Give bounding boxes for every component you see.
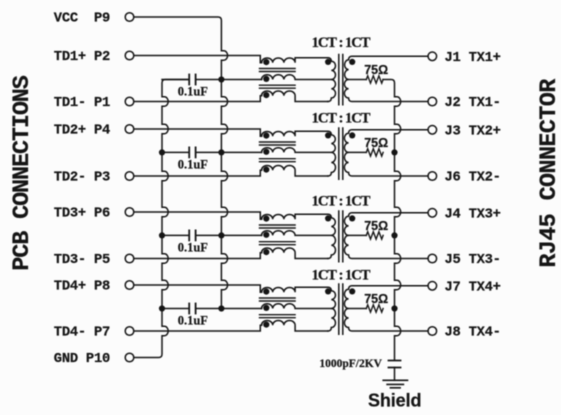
- svg-text:0.1uF: 0.1uF: [178, 158, 209, 172]
- transformer T1 core: [339, 55, 343, 105]
- junction GND bus ch2: [159, 149, 165, 155]
- choke L1 mid winding: [262, 75, 332, 80]
- pin circle J7: [428, 282, 437, 291]
- transformer T2 primary dot: [325, 132, 331, 138]
- svg-text:TD1- P1: TD1- P1: [54, 96, 110, 111]
- choke L4 mid winding: [262, 304, 332, 309]
- transformer T3 secondary: [344, 213, 428, 259]
- svg-text:1CT : 1CT: 1CT : 1CT: [312, 111, 371, 127]
- ground shield symbol: [383, 380, 407, 388]
- transformer T4 core: [339, 284, 343, 334]
- wire T1 center tap: [349, 79, 367, 81]
- choke L3 mid winding: [262, 231, 332, 236]
- pin circle TD4- P7: [125, 327, 134, 336]
- pin circle TD2- P3: [125, 172, 134, 181]
- transformer T2 secondary: [344, 130, 428, 176]
- transformer T4 primary dot: [325, 288, 331, 294]
- wire cap C2 right to choke: [196, 151, 261, 153]
- choke L2 dot top: [263, 133, 269, 139]
- junction VCC bus ch1: [218, 76, 224, 82]
- wire cap C2 left: [162, 151, 188, 153]
- choke L2 core: [260, 142, 296, 162]
- svg-text:1CT : 1CT: 1CT : 1CT: [312, 194, 371, 210]
- svg-text:J1 TX1+: J1 TX1+: [445, 51, 501, 66]
- svg-text:1000pF/2KV: 1000pF/2KV: [319, 358, 382, 370]
- svg-text:VCC P9: VCC P9: [54, 12, 110, 27]
- junction GND bus ch4: [159, 305, 165, 311]
- wire cap C3 right to choke: [196, 234, 261, 236]
- junction VCC bus ch4: [218, 305, 224, 311]
- choke L1 dot mid: [263, 76, 269, 82]
- wire TD1- to choke: [134, 96, 262, 102]
- choke L4 top winding: [262, 287, 328, 292]
- svg-text:RJ45 CONNECTOR: RJ45 CONNECTOR: [536, 78, 561, 268]
- wire T3 center tap: [349, 234, 367, 236]
- svg-text:TD2- P3: TD2- P3: [54, 171, 110, 186]
- wire TD4+ to choke: [134, 285, 262, 292]
- svg-text:75Ω: 75Ω: [364, 292, 388, 306]
- pin circle J5: [428, 254, 437, 263]
- svg-text:J4 TX3+: J4 TX3+: [445, 207, 501, 222]
- transformer T4 secondary: [344, 286, 428, 331]
- transformer T3 secondary dot: [349, 215, 355, 221]
- svg-text:TD2+ P4: TD2+ P4: [54, 124, 110, 139]
- choke L3 bot winding: [262, 248, 328, 259]
- choke L1 dot top: [263, 59, 269, 65]
- svg-text:0.1uF: 0.1uF: [178, 314, 209, 328]
- wire cap C3 left: [162, 234, 188, 236]
- svg-text:TD1+ P2: TD1+ P2: [54, 50, 110, 65]
- pin circle VCC P9: [125, 13, 134, 22]
- pin circle J1: [428, 52, 437, 61]
- transformer T3 primary dot: [325, 215, 331, 221]
- transformer T1 secondary: [344, 56, 428, 101]
- svg-text:TD4+ P8: TD4+ P8: [54, 280, 110, 295]
- transformer T3 primary: [328, 214, 336, 258]
- choke L2 dot mid: [263, 149, 269, 155]
- capacitor C3 0.1uF: [188, 230, 190, 240]
- wire TD3- to choke: [134, 253, 262, 259]
- choke L3 top winding: [262, 214, 328, 219]
- svg-text:J6 TX2-: J6 TX2-: [445, 171, 501, 186]
- choke L4 core: [260, 298, 296, 318]
- wire+bus VCC net: [134, 17, 228, 309]
- choke L2 dot bot: [263, 167, 269, 173]
- transformer T4 primary: [328, 287, 336, 331]
- svg-text:Shield: Shield: [368, 391, 421, 411]
- title RJ45 CONNECTOR: [536, 78, 561, 268]
- transformer T1 primary dot: [325, 59, 331, 65]
- wire TD2+ to choke: [134, 129, 262, 136]
- junction VCC bus ch3: [218, 232, 224, 238]
- wire cap C1 right to choke: [196, 79, 261, 81]
- svg-text:0.1uF: 0.1uF: [178, 85, 209, 99]
- pin circle TD3+ P6: [125, 208, 134, 217]
- choke L3 dot mid: [263, 232, 269, 238]
- pin circle TD2+ P4: [125, 125, 134, 134]
- pin circle J8: [428, 327, 437, 336]
- capacitor C1 0.1uF: [188, 75, 190, 85]
- wire C5 to ground: [394, 368, 396, 381]
- pin circle J4: [428, 209, 437, 218]
- resistor R4 75ohm: [366, 305, 383, 312]
- svg-text:1CT : 1CT: 1CT : 1CT: [312, 268, 371, 284]
- wire TD2- to choke: [134, 170, 262, 176]
- transformer T1 secondary dot: [349, 59, 355, 65]
- resistor R2 75ohm: [366, 149, 383, 156]
- resistor R1 75ohm: [366, 76, 383, 83]
- wire+bus GND net: [134, 80, 189, 358]
- svg-text:J3 TX2+: J3 TX2+: [445, 124, 501, 139]
- svg-text:0.1uF: 0.1uF: [178, 241, 209, 255]
- wire TD1+ to choke: [134, 56, 262, 63]
- transformer T1 primary: [328, 58, 336, 102]
- choke L1 top winding: [262, 58, 328, 63]
- choke L3 core: [260, 225, 296, 245]
- wire cap C4 left: [162, 308, 188, 310]
- choke L1 core: [260, 69, 296, 89]
- title PCB CONNECTIONS: [9, 75, 36, 270]
- choke L2 mid winding: [262, 148, 332, 153]
- pin circle J3: [428, 126, 437, 135]
- choke L4 dot bot: [263, 322, 269, 328]
- svg-text:TD3- P5: TD3- P5: [54, 253, 110, 268]
- svg-text:TD4- P7: TD4- P7: [54, 326, 110, 341]
- junction VCC bus ch2: [218, 149, 224, 155]
- wire TD3+ to choke: [134, 212, 262, 219]
- transformer T3 core: [339, 211, 343, 262]
- capacitor C5 1000pF/2KV: [389, 361, 401, 368]
- svg-text:75Ω: 75Ω: [364, 63, 388, 77]
- choke L4 dot top: [263, 289, 269, 295]
- junction terminator bus ch3: [391, 232, 397, 238]
- svg-text:TD3+ P6: TD3+ P6: [54, 207, 110, 222]
- choke L3 dot bot: [263, 249, 269, 255]
- svg-text:75Ω: 75Ω: [364, 219, 388, 233]
- pin circle J2: [428, 97, 437, 106]
- wire TD4- to choke: [134, 325, 262, 331]
- wire+bus terminator net: [383, 80, 401, 361]
- choke L1 dot bot: [263, 92, 269, 98]
- choke L4 dot mid: [263, 305, 269, 311]
- resistor R3 75ohm: [366, 232, 383, 239]
- transformer T4 secondary dot: [349, 288, 355, 294]
- choke L3 dot top: [263, 216, 269, 222]
- junction terminator bus ch2: [391, 149, 397, 155]
- choke L2 top winding: [262, 131, 328, 136]
- pin circle TD3- P5: [125, 254, 134, 263]
- wire T2 center tap: [349, 151, 367, 153]
- svg-text:J5 TX3-: J5 TX3-: [445, 253, 501, 268]
- choke L4 bot winding: [262, 321, 328, 332]
- svg-text:J8 TX4-: J8 TX4-: [445, 326, 501, 341]
- svg-text:1CT : 1CT: 1CT : 1CT: [312, 35, 371, 51]
- pin circle J6: [428, 172, 437, 181]
- wire cap C1 left: [162, 79, 188, 81]
- wire cap C4 right to choke: [196, 308, 261, 310]
- pin circle TD1- P1: [125, 97, 134, 106]
- svg-text:PCB CONNECTIONS: PCB CONNECTIONS: [9, 75, 36, 270]
- svg-text:J7 TX4+: J7 TX4+: [445, 280, 501, 295]
- transformer T2 primary: [328, 131, 336, 176]
- junction GND bus ch3: [159, 232, 165, 238]
- junction terminator bus ch4: [391, 305, 397, 311]
- choke L1 bot winding: [262, 91, 328, 102]
- svg-text:75Ω: 75Ω: [364, 136, 388, 150]
- svg-text:J2 TX1-: J2 TX1-: [445, 96, 501, 111]
- transformer T2 core: [339, 128, 343, 179]
- choke L2 bot winding: [262, 166, 328, 177]
- capacitor C2 0.1uF: [188, 147, 190, 157]
- pin circle GND P10: [125, 353, 134, 362]
- pin circle TD1+ P2: [125, 51, 134, 60]
- pin circle TD4+ P8: [125, 281, 134, 290]
- svg-text:GND P10: GND P10: [54, 352, 110, 367]
- transformer T2 secondary dot: [349, 132, 355, 138]
- wire T4 center tap: [349, 308, 367, 310]
- capacitor C4 0.1uF: [188, 304, 190, 314]
